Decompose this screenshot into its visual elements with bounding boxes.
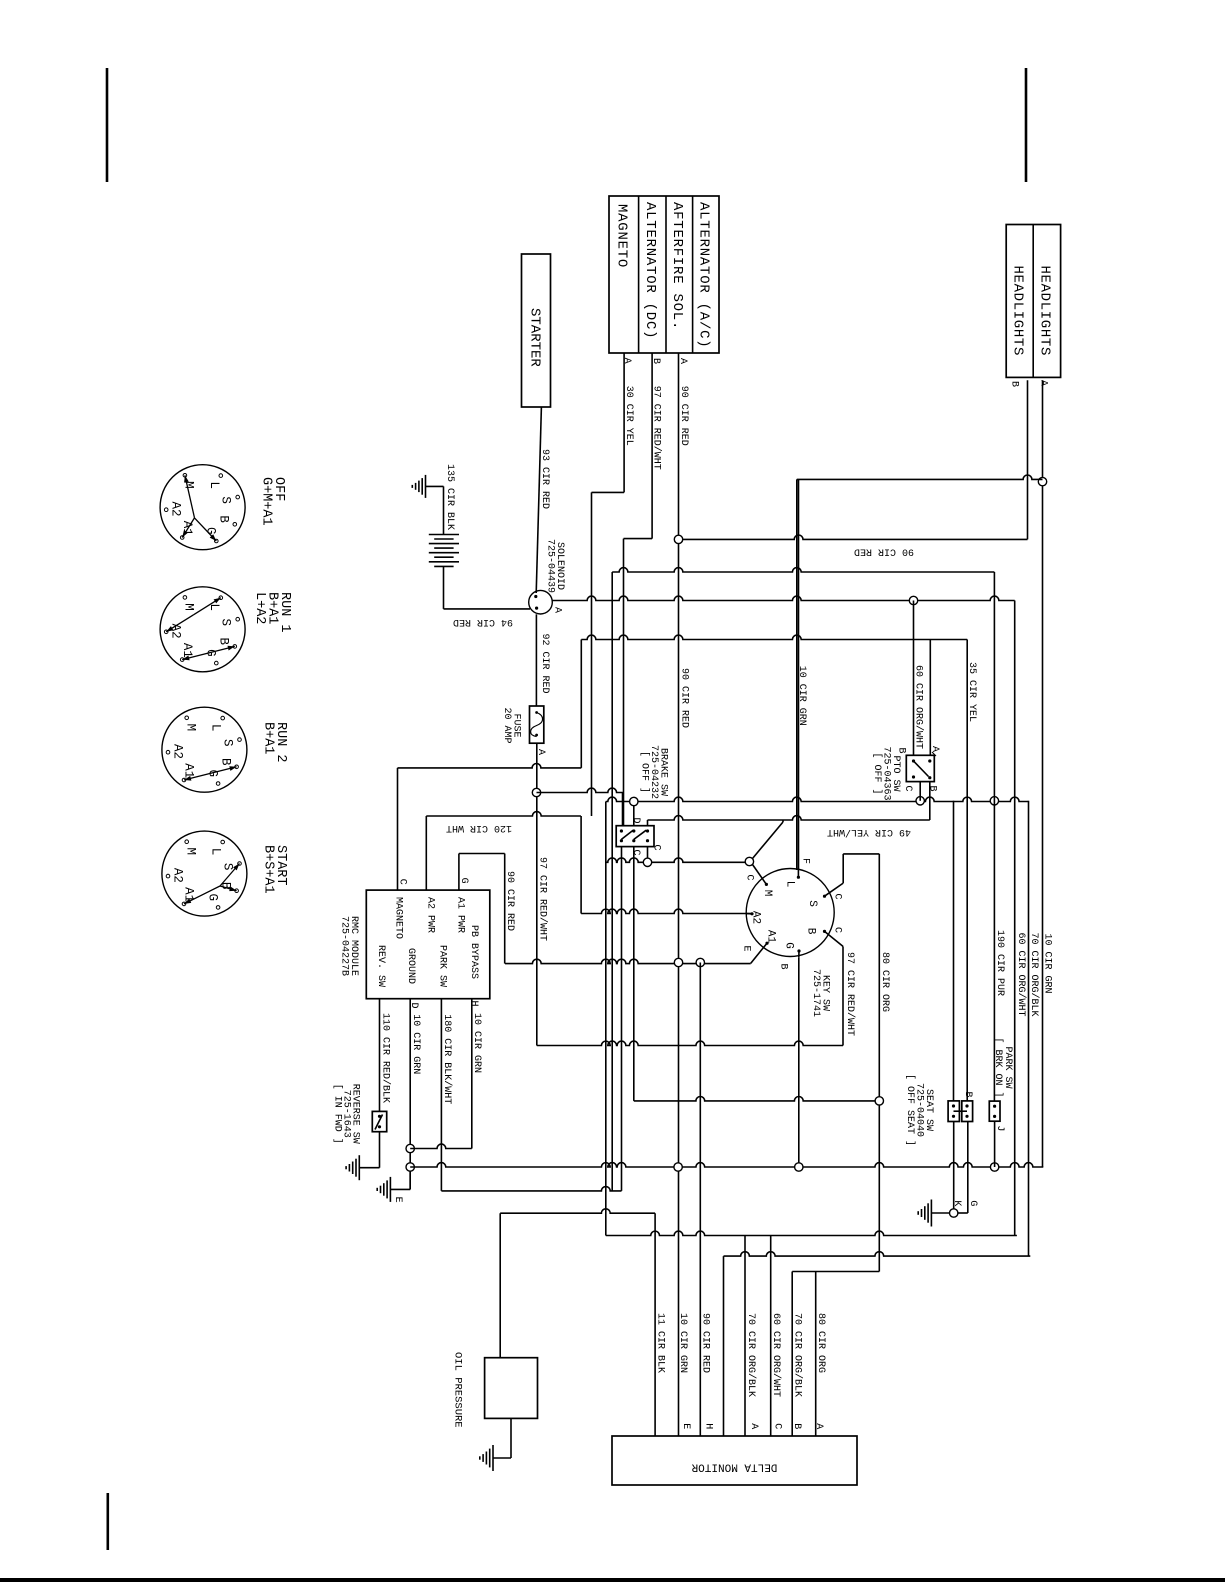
rail y768 magneto to rmc bbox=[398, 764, 582, 768]
svg-text:70 CIR ORG/BLK: 70 CIR ORG/BLK bbox=[792, 1313, 804, 1397]
svg-text:MAGNETO: MAGNETO bbox=[392, 897, 403, 939]
wire reverse sw down bbox=[359, 1132, 379, 1168]
svg-text:B: B bbox=[895, 747, 906, 753]
seat switch box right bbox=[962, 1101, 973, 1122]
wire label 80 CIR ORG key bbox=[879, 952, 890, 1012]
delta pin A1 bbox=[748, 1423, 759, 1429]
delta pin H bbox=[702, 1423, 713, 1429]
delta pin C bbox=[771, 1423, 782, 1429]
svg-text:10 CIR GRN: 10 CIR GRN bbox=[1041, 934, 1052, 994]
junction y1167 park J bbox=[990, 1163, 998, 1171]
rmc text GROUND bbox=[405, 948, 416, 984]
wire brake TL up bbox=[622, 793, 624, 826]
key label C right top bbox=[832, 893, 843, 899]
rail y1256 bbox=[724, 1252, 1031, 1256]
wire 90 CIR RED delta drop bbox=[699, 963, 701, 1437]
ground E symbol bbox=[377, 1177, 390, 1202]
svg-text:A: A bbox=[813, 1423, 824, 1429]
key S wire bbox=[842, 854, 844, 883]
svg-text:[ OFF ]: [ OFF ] bbox=[638, 751, 650, 793]
svg-text:180 CIR BLK/WHT: 180 CIR BLK/WHT bbox=[441, 1014, 453, 1104]
ignition position START label bbox=[261, 845, 289, 894]
svg-text:A1 PWR: A1 PWR bbox=[455, 897, 466, 933]
junction spine y539 bbox=[674, 535, 682, 543]
svg-text:PARK SW: PARK SW bbox=[436, 945, 447, 987]
rmc module box bbox=[366, 890, 490, 999]
rail y1101 80 org bbox=[634, 1097, 880, 1101]
seat sw label bbox=[904, 1074, 934, 1146]
label MAGNETO bbox=[614, 204, 630, 268]
wire 94 CIR RED battery to solenoid bbox=[444, 566, 531, 609]
headlights box bbox=[1006, 225, 1060, 378]
svg-text:ALTERNATOR (DC): ALTERNATOR (DC) bbox=[642, 202, 658, 339]
brake switch rail y801 bbox=[606, 797, 1029, 801]
label 10 CIR GRN right bbox=[1041, 934, 1052, 994]
junction rmc ground 1 bbox=[406, 1144, 414, 1152]
key letter L bbox=[784, 881, 796, 888]
svg-text:MAGNETO: MAGNETO bbox=[614, 204, 630, 268]
wire label 135 CIR BLK bbox=[444, 464, 455, 530]
svg-text:A2: A2 bbox=[170, 868, 184, 883]
key letter A1 bbox=[765, 930, 777, 944]
ignition position RUN 1 bbox=[160, 587, 245, 672]
pto blade bbox=[914, 761, 929, 777]
svg-text:C: C bbox=[771, 1423, 782, 1429]
wire brake BM down bbox=[633, 847, 635, 1101]
junction y963 spine bbox=[674, 958, 682, 966]
svg-text:A2: A2 bbox=[750, 911, 762, 924]
brake sw label bbox=[638, 745, 668, 799]
svg-text:L: L bbox=[784, 881, 796, 888]
pto switch box bbox=[906, 755, 934, 781]
key label F bbox=[799, 858, 810, 864]
svg-text:B+S+A1: B+S+A1 bbox=[261, 845, 276, 894]
svg-text:725-04227B: 725-04227B bbox=[338, 916, 349, 976]
svg-text:10 CIR GRN: 10 CIR GRN bbox=[471, 1013, 482, 1073]
wire delta 70orgblk B bbox=[791, 1272, 793, 1437]
wire x581 magneto link bbox=[580, 640, 582, 768]
svg-text:190 CIR PUR: 190 CIR PUR bbox=[994, 930, 1005, 996]
solenoid label bbox=[544, 539, 565, 593]
key label E bbox=[740, 945, 751, 951]
wire brake BL down bbox=[621, 847, 623, 1191]
battery ground bbox=[412, 475, 425, 498]
wire headlight B down bbox=[1027, 380, 1029, 539]
wire label 49 CIR YEL/WHT upside down bbox=[827, 826, 911, 838]
wire label 90 CIR RED spine mid bbox=[678, 668, 689, 728]
rail y854 S to 80 org bbox=[843, 853, 879, 855]
svg-text:97 CIR RED/WHT: 97 CIR RED/WHT bbox=[537, 857, 549, 941]
ignition position OFF bbox=[160, 465, 245, 550]
wire headlight A down bbox=[1042, 380, 1044, 1167]
svg-text:E: E bbox=[392, 1197, 403, 1203]
label 80 CIR ORG delta bbox=[815, 1313, 826, 1373]
wire x581 lower seg bbox=[580, 816, 582, 914]
svg-text:STARTER: STARTER bbox=[526, 308, 542, 367]
wire 93 CIR RED starter to solenoid bbox=[536, 407, 541, 593]
junction K bbox=[950, 1209, 958, 1217]
pto pin B bottom bbox=[926, 785, 937, 791]
svg-text:REV. SW: REV. SW bbox=[375, 945, 386, 987]
rail y1190 park bbox=[441, 1187, 621, 1191]
wire label 97 CIR RED/WHT key bbox=[844, 952, 856, 1036]
svg-text:C: C bbox=[902, 785, 913, 791]
svg-text:93 CIR RED: 93 CIR RED bbox=[539, 449, 550, 509]
rmc text A1 PWR bbox=[455, 897, 466, 933]
registration tick bottom-left bbox=[107, 1493, 110, 1550]
svg-text:G: G bbox=[205, 893, 219, 901]
svg-text:90 CIR RED: 90 CIR RED bbox=[854, 545, 914, 556]
wire brake TR bbox=[647, 820, 649, 826]
rail y1045 key B bbox=[537, 1041, 843, 1045]
svg-text:M: M bbox=[184, 848, 198, 856]
svg-text:B: B bbox=[1009, 381, 1020, 387]
svg-text:L: L bbox=[209, 724, 223, 732]
svg-text:B: B bbox=[777, 963, 788, 969]
wire x606 long drop bbox=[605, 802, 607, 1236]
seat pin B label bbox=[962, 1091, 973, 1097]
svg-text:G: G bbox=[458, 878, 469, 884]
svg-text:S: S bbox=[219, 496, 233, 504]
wire label 10 CIR GRN spine bbox=[796, 666, 807, 726]
wire label 97 CIR RED/WHT mid bbox=[537, 857, 549, 941]
svg-text:G: G bbox=[204, 527, 218, 535]
wire label 92 CIR RED bbox=[539, 634, 550, 694]
rail y820 49 CIR YEL/WHT bbox=[648, 816, 930, 820]
svg-text:M: M bbox=[184, 724, 198, 732]
svg-text:K: K bbox=[951, 1200, 962, 1206]
park sw dots bbox=[993, 1105, 996, 1118]
ground E label bbox=[392, 1197, 403, 1203]
svg-text:B: B bbox=[217, 515, 231, 523]
wire label 97 CIR RED/WHT bbox=[651, 386, 663, 470]
page border bottom bbox=[0, 1578, 1225, 1582]
wire fuse down bbox=[536, 743, 538, 1045]
svg-text:A1: A1 bbox=[765, 930, 777, 944]
wire 10 CIR GRN spine upper bbox=[796, 479, 798, 870]
pto pin A top bbox=[929, 746, 940, 756]
svg-text:GROUND: GROUND bbox=[405, 948, 416, 984]
pto sw label bbox=[871, 747, 901, 801]
label 60 CIR ORG/WHT delta bbox=[770, 1313, 782, 1397]
key letter S bbox=[806, 900, 818, 907]
svg-text:90 CIR RED: 90 CIR RED bbox=[504, 871, 515, 931]
svg-text:A: A bbox=[621, 358, 632, 364]
svg-text:90 CIR RED: 90 CIR RED bbox=[678, 386, 689, 446]
svg-text:725-04439: 725-04439 bbox=[544, 539, 555, 593]
seat switch box left bbox=[948, 1101, 959, 1122]
wire 35 CIR YEL drop to seat bbox=[966, 640, 968, 1101]
wire label 60 CIR ORG/WHT mid bbox=[913, 665, 925, 749]
svg-text:B: B bbox=[805, 928, 817, 935]
delta pin E bbox=[680, 1423, 691, 1429]
svg-text:110 CIR RED/BLK: 110 CIR RED/BLK bbox=[380, 1013, 392, 1103]
ground reverse symbol bbox=[346, 1155, 359, 1180]
svg-text:AFTERFIRE SOL.: AFTERFIRE SOL. bbox=[669, 202, 685, 330]
svg-text:10 CIR GRN: 10 CIR GRN bbox=[796, 666, 807, 726]
svg-text:725-1741: 725-1741 bbox=[810, 969, 821, 1017]
svg-text:A2 PWR: A2 PWR bbox=[425, 897, 436, 933]
brake sw dots bbox=[620, 829, 649, 842]
park pin J label bbox=[994, 1125, 1005, 1131]
key terminal B bbox=[823, 930, 843, 947]
svg-text:HEADLIGHTS: HEADLIGHTS bbox=[1010, 266, 1026, 357]
rmc pin C label bbox=[397, 879, 408, 885]
svg-text:[ BRK ON ]: [ BRK ON ] bbox=[992, 1038, 1004, 1098]
wire delta 11blk bbox=[654, 1213, 656, 1436]
wire seat box1 bottom bbox=[953, 1122, 955, 1210]
svg-text:DELTA MONITOR: DELTA MONITOR bbox=[691, 1461, 777, 1473]
svg-text:30 CIR YEL: 30 CIR YEL bbox=[623, 386, 634, 446]
fuse 20A box bbox=[530, 706, 544, 743]
junction y1167 10grn bbox=[795, 1163, 803, 1171]
svg-text:A1: A1 bbox=[180, 643, 194, 658]
starter M1 label bbox=[526, 308, 542, 367]
svg-text:S: S bbox=[220, 739, 234, 747]
wire rmc magneto pin up bbox=[397, 768, 399, 890]
svg-text:A1: A1 bbox=[182, 763, 196, 778]
seat box left dots bbox=[952, 1104, 955, 1118]
wire rmc pb bypass down bbox=[471, 999, 473, 1149]
rail 90 CIR RED y539 bbox=[679, 535, 1028, 539]
label 10 CIR GRN delta bbox=[677, 1313, 688, 1373]
svg-text:10 CIR GRN: 10 CIR GRN bbox=[677, 1313, 688, 1373]
rail y913 A2 bbox=[581, 909, 752, 913]
wire delta 80org A bbox=[815, 1272, 817, 1437]
wire 97 CIR RED/WHT drop bbox=[623, 539, 625, 826]
svg-text:L: L bbox=[207, 481, 221, 489]
seat link bbox=[954, 1110, 968, 1112]
key terminal S bbox=[823, 883, 843, 898]
svg-text:PB BYPASS: PB BYPASS bbox=[468, 925, 479, 979]
reverse sw label bbox=[331, 1084, 360, 1144]
junction pto C bbox=[916, 797, 924, 805]
wire label 90 CIR RED bbox=[678, 386, 689, 446]
pin B alternator dc bbox=[650, 358, 661, 364]
wire label 90 CIR RED mid bbox=[504, 871, 515, 931]
label HEADLIGHTS left bbox=[1010, 266, 1026, 357]
svg-text:C: C bbox=[630, 849, 641, 855]
svg-text:B: B bbox=[217, 638, 231, 646]
label ALTERNATOR (DC) bbox=[642, 202, 658, 339]
wire delta bare bbox=[723, 1256, 725, 1436]
svg-text:L+A2: L+A2 bbox=[252, 592, 267, 624]
pin A magneto bbox=[621, 358, 632, 364]
svg-text:B: B bbox=[962, 1091, 973, 1097]
rail y816 120 CIR WHT bbox=[426, 812, 581, 816]
battery ground wire bbox=[426, 486, 444, 534]
junction y963 90red bbox=[696, 958, 704, 966]
svg-text:80 CIR ORG: 80 CIR ORG bbox=[815, 1313, 826, 1373]
rmc text REV. SW bbox=[375, 945, 386, 987]
rail y1148 pb bypass bbox=[410, 1144, 472, 1148]
junction brake D bbox=[630, 797, 638, 805]
wire 30 CIR YEL drop bbox=[591, 492, 593, 816]
svg-text:G+M+A1: G+M+A1 bbox=[259, 477, 274, 526]
solenoid circle bbox=[529, 590, 553, 614]
key switch circle bbox=[746, 869, 834, 957]
key L wire up bbox=[798, 479, 800, 870]
wire label 30 CIR YEL bbox=[623, 386, 634, 446]
key letter B bbox=[805, 928, 817, 935]
svg-text:HEADLIGHTS: HEADLIGHTS bbox=[1037, 266, 1053, 357]
seat pin K label bbox=[951, 1200, 962, 1206]
registration tick top-left bbox=[106, 68, 109, 182]
wire rmc ground down bbox=[409, 999, 411, 1190]
label 90 CIR RED delta bbox=[700, 1313, 711, 1373]
brake sw blades bbox=[621, 830, 646, 839]
wire park bottom bbox=[994, 1121, 996, 1167]
label 70 CIR ORG/BLK delta B bbox=[792, 1313, 804, 1397]
key junction M bbox=[745, 857, 753, 865]
delta monitor label upside down bbox=[691, 1461, 777, 1473]
svg-text:H: H bbox=[702, 1423, 713, 1429]
svg-text:80 CIR ORG: 80 CIR ORG bbox=[879, 952, 890, 1012]
wire delta 60orgwht C bbox=[770, 1236, 772, 1437]
label AFTERFIRE SOL. bbox=[669, 202, 685, 330]
fuse label bbox=[501, 708, 522, 744]
oil pressure ground wire bbox=[493, 1418, 511, 1458]
svg-text:S: S bbox=[220, 863, 234, 871]
key label C right bottom bbox=[832, 927, 843, 933]
pin A headlights bbox=[1037, 380, 1048, 386]
svg-text:94 CIR RED: 94 CIR RED bbox=[453, 616, 513, 627]
svg-text:E: E bbox=[680, 1423, 691, 1429]
delta monitor box bbox=[612, 1436, 857, 1485]
pto pin B top bbox=[895, 747, 906, 753]
wire 97 CIR RED/WHT from alternator dc bbox=[624, 353, 653, 539]
svg-text:E: E bbox=[740, 945, 751, 951]
wire solenoid A rail y600 bbox=[552, 596, 1015, 600]
junction y1101 80org bbox=[875, 1097, 883, 1105]
junction headlight A bbox=[1038, 477, 1046, 485]
ignition position START bbox=[162, 831, 247, 916]
ground seat lead bbox=[931, 1212, 949, 1214]
key terminal L bbox=[797, 870, 800, 879]
key terminal M bbox=[753, 865, 769, 887]
svg-text:60 CIR ORG/WHT: 60 CIR ORG/WHT bbox=[913, 665, 925, 749]
svg-text:C: C bbox=[832, 893, 843, 899]
svg-text:B: B bbox=[926, 785, 937, 791]
junction y1167 spine bbox=[674, 1163, 682, 1171]
ignition position RUN 2 label bbox=[261, 722, 289, 763]
label 11 CIR BLK bbox=[654, 1313, 665, 1373]
fuse pin A bbox=[535, 749, 546, 755]
svg-text:F: F bbox=[799, 858, 810, 864]
rail y1213 oil bbox=[500, 1209, 655, 1213]
svg-text:S: S bbox=[219, 619, 233, 627]
brake switch box bbox=[616, 826, 654, 847]
ignition position RUN 1 label bbox=[252, 592, 292, 633]
wire pto left top bbox=[913, 601, 915, 756]
rmc text PARK SW bbox=[436, 945, 447, 987]
key terminal A1 bbox=[751, 942, 769, 964]
key sw label bbox=[810, 969, 831, 1017]
wire label 120 CIR WHT upside down bbox=[446, 822, 512, 833]
rmc label bbox=[338, 916, 359, 976]
svg-text:D: D bbox=[630, 817, 641, 823]
brake pin D label bbox=[630, 817, 641, 823]
rmc pin G label bbox=[458, 878, 469, 884]
svg-text:[ IN FWD ]: [ IN FWD ] bbox=[331, 1084, 343, 1144]
svg-text:C: C bbox=[832, 927, 843, 933]
wire label 94 CIR RED upside down bbox=[453, 616, 513, 627]
wire label 90 CIR RED upside down bbox=[854, 545, 914, 556]
wire label 10 CIR GRN rmc bbox=[410, 1014, 421, 1074]
label 60 CIR ORG/WHT right bbox=[1015, 933, 1027, 1017]
svg-text:ALTERNATOR (A/C): ALTERNATOR (A/C) bbox=[696, 202, 712, 348]
wire rmc park sw down bbox=[440, 999, 442, 1191]
key label C left bbox=[744, 874, 755, 880]
wire label 180 CIR BLK/WHT bbox=[441, 1014, 453, 1104]
wire label H 10 CIR GRN bbox=[471, 1013, 482, 1073]
wire 30 CIR YEL from magneto bbox=[592, 353, 625, 492]
wire oil drop bbox=[499, 1213, 501, 1358]
svg-text:C: C bbox=[397, 879, 408, 885]
wire delta 70orgblk A bbox=[744, 1236, 746, 1437]
rmc pin H label bbox=[468, 1000, 479, 1006]
wire 92 CIR RED solenoid to fuse bbox=[535, 614, 537, 706]
rail y792 fuse to brake bbox=[537, 788, 624, 792]
svg-text:M: M bbox=[761, 890, 773, 897]
wire rmc rev sw down bbox=[379, 999, 381, 1112]
svg-text:[ OFF SEAT ]: [ OFF SEAT ] bbox=[904, 1074, 916, 1146]
wire 90 CIR RED spine from alternator ac bbox=[678, 353, 680, 1436]
wire pto B bottom to 49 rail bbox=[929, 782, 931, 820]
reverse switch box bbox=[372, 1111, 386, 1131]
rmc text PB BYPASS bbox=[468, 925, 479, 979]
label HEADLIGHTS right bbox=[1037, 266, 1053, 357]
junction park 190 bbox=[990, 797, 998, 805]
svg-text:A: A bbox=[748, 1423, 759, 1429]
wire 80 CIR ORG drop bbox=[878, 854, 880, 1272]
key M diag up bbox=[753, 820, 784, 859]
rail y639 35 CIR YEL bbox=[581, 635, 967, 639]
svg-text:97 CIR RED/WHT: 97 CIR RED/WHT bbox=[844, 952, 856, 1036]
junction fuse wire bbox=[532, 788, 540, 796]
wire seat box1 top bbox=[953, 801, 955, 1101]
label 70 CIR ORG/BLK delta A bbox=[745, 1313, 757, 1397]
rail y1271 bbox=[792, 1271, 879, 1273]
key terminal G bbox=[797, 949, 800, 957]
svg-text:20 AMP: 20 AMP bbox=[501, 708, 512, 744]
ignition position RUN 2 bbox=[162, 707, 247, 792]
delta pin A2 bbox=[813, 1423, 824, 1429]
delta pin B bbox=[791, 1423, 802, 1429]
wire pto C bottom bbox=[919, 782, 921, 801]
svg-text:49 CIR YEL/WHT: 49 CIR YEL/WHT bbox=[827, 826, 911, 838]
wire label 93 CIR RED bbox=[539, 449, 550, 509]
rail y862 brake to key M bbox=[606, 858, 750, 862]
svg-text:S: S bbox=[806, 900, 818, 907]
junction brake BR bbox=[643, 858, 651, 866]
svg-text:A2: A2 bbox=[169, 501, 183, 516]
key B wire down bbox=[842, 946, 844, 1045]
rmc ground E lead bbox=[390, 1171, 410, 1189]
wire label 110 CIR RED/BLK bbox=[380, 1013, 392, 1103]
rmc text A2 PWR bbox=[425, 897, 436, 933]
key letter G bbox=[783, 942, 795, 949]
starter M1 box bbox=[522, 254, 551, 407]
svg-text:B: B bbox=[791, 1423, 802, 1429]
wire brake BR down bbox=[647, 847, 649, 863]
key G wire down bbox=[798, 957, 800, 1167]
label 190 CIR PUR bbox=[994, 930, 1005, 996]
svg-text:J: J bbox=[994, 1125, 1005, 1131]
oil pressure ground bbox=[480, 1445, 493, 1471]
svg-text:H: H bbox=[468, 1000, 479, 1006]
junction pto feed bbox=[909, 596, 917, 604]
